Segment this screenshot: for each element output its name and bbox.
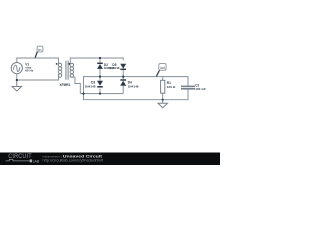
node flag out xyxy=(156,64,166,77)
wire R1 leads xyxy=(162,77,164,81)
node mid-left junction xyxy=(99,76,101,78)
node bridge bottom left junction xyxy=(99,93,101,95)
svg-text:1N4148: 1N4148 xyxy=(128,85,139,89)
wire primary bottom xyxy=(17,76,59,80)
core lines xyxy=(65,61,67,80)
wire middle output and descender xyxy=(84,77,189,94)
svg-text:1N4148: 1N4148 xyxy=(109,66,120,70)
node mid-right junction xyxy=(122,76,124,78)
ground (under V1) xyxy=(12,80,21,91)
svg-text:1N4148: 1N4148 xyxy=(85,85,96,89)
svg-text:XFMR1: XFMR1 xyxy=(60,83,71,87)
polarity dot secondary xyxy=(68,63,70,65)
svg-text:LAB: LAB xyxy=(33,159,40,163)
secondary winding xyxy=(70,63,74,67)
CircuitLab logo xyxy=(6,154,40,163)
polarity dot primary xyxy=(56,63,58,65)
wire left rail D2 to mid xyxy=(99,69,101,81)
wire C1 leads xyxy=(187,82,189,86)
primary winding xyxy=(58,63,62,67)
wire left diode rail xyxy=(99,58,101,63)
wire descender to bottom rail xyxy=(84,93,189,100)
D3 label xyxy=(85,81,96,89)
diode D2 xyxy=(97,63,103,69)
wire bridge bottom rail xyxy=(80,93,123,95)
svg-text:100 Ω: 100 Ω xyxy=(167,85,176,89)
wire right rail D4 to bottom xyxy=(122,86,124,94)
resistor R1 xyxy=(161,80,165,93)
node descender top junction xyxy=(82,93,84,95)
wire V1 bottom to ground node xyxy=(16,74,18,80)
D2 label xyxy=(104,63,115,70)
wire secondary bottom staircase xyxy=(70,76,80,93)
svg-text:60 Hz: 60 Hz xyxy=(25,69,34,73)
wire right rail D5 to mid xyxy=(122,69,124,79)
D4 label xyxy=(128,81,139,89)
footer watermark bar xyxy=(0,153,220,166)
diode D5 xyxy=(120,64,126,70)
transformer XFMR1 xyxy=(58,61,73,80)
wire left rail D3 to bottom xyxy=(99,89,101,94)
diode D3 xyxy=(97,81,103,87)
svg-text:out: out xyxy=(160,66,165,70)
capacitor C1 xyxy=(181,86,195,88)
ground (right, under R1) xyxy=(158,100,168,108)
svg-text:http://circuitlab.com/c/y9ha3u: http://circuitlab.com/c/y9ha3udr9vtf xyxy=(43,159,104,163)
voltage source V1 xyxy=(11,63,22,74)
svg-text:100 mF: 100 mF xyxy=(195,87,206,91)
node R1 bottom / ground junction xyxy=(162,99,164,101)
node flag in xyxy=(35,46,43,58)
R1 label xyxy=(167,81,176,89)
diode D4 xyxy=(120,80,126,86)
wire V1 top to XFMR primary top xyxy=(17,58,59,64)
node A junction (secondary top / D2 rail) xyxy=(99,57,101,59)
D5 label xyxy=(109,63,120,70)
svg-text:in: in xyxy=(38,48,41,52)
V1 labels xyxy=(25,63,34,73)
node dot V1 ground junction xyxy=(16,79,18,81)
C1 label xyxy=(195,83,206,90)
wire secondary top to bridge right rail xyxy=(70,58,123,64)
